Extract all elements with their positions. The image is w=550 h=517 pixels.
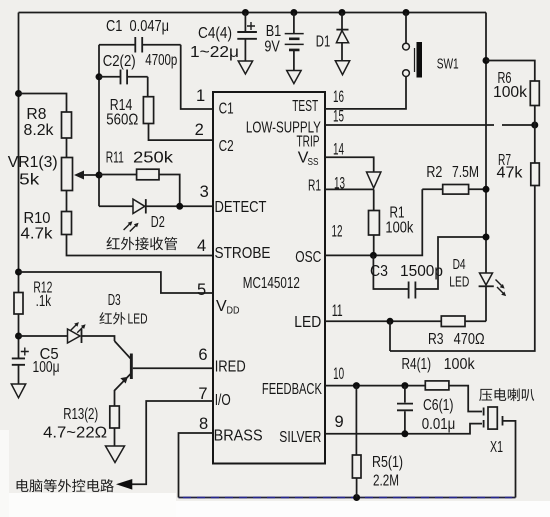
node VR1/R11 left <box>96 172 103 179</box>
wire R8-VR1 <box>66 138 68 158</box>
wire C3 right arm <box>416 237 486 289</box>
svg-text:R3: R3 <box>428 331 444 348</box>
svg-text:IRED: IRED <box>215 359 246 376</box>
svg-text:TRIP: TRIP <box>297 133 320 150</box>
resistor R4 <box>425 381 449 390</box>
wire R6 to tap <box>534 106 536 164</box>
svg-text:C6(1): C6(1) <box>423 397 454 414</box>
svg-text:LED: LED <box>294 314 321 331</box>
svg-text:LED: LED <box>449 274 469 291</box>
wire D3 anode <box>19 335 68 337</box>
svg-text:BRASS: BRASS <box>214 428 263 445</box>
wire pin15 low-supply <box>325 124 535 126</box>
svg-text:4.7~22Ω: 4.7~22Ω <box>43 425 107 442</box>
ground D1 <box>335 61 349 75</box>
resistor R5 <box>352 455 361 478</box>
D3 emit arrows <box>71 324 78 331</box>
wire C3 left arm <box>373 255 408 289</box>
wire C2 to R14 <box>147 77 149 97</box>
svg-text:R13(2): R13(2) <box>63 406 98 423</box>
resistor R13 <box>110 406 120 428</box>
svg-text:11: 11 <box>332 302 343 320</box>
node pin15 divider tap <box>531 122 538 129</box>
label X1 chinese <box>479 389 492 401</box>
node bottom rail / R5 <box>353 494 360 501</box>
wire R8 branch <box>19 94 67 113</box>
node D1 top <box>339 9 346 16</box>
svg-text:R1: R1 <box>308 177 321 194</box>
svg-text:2.2M: 2.2M <box>373 473 399 490</box>
svg-text:V: V <box>216 298 227 315</box>
wire left rail upper <box>18 13 20 293</box>
wire R6 branch <box>486 61 535 82</box>
node R2/right rail <box>483 186 490 193</box>
transistor Q1 emitter <box>115 374 131 406</box>
wire R11 right to detect line <box>159 175 180 207</box>
svg-text:I/O: I/O <box>215 392 231 409</box>
svg-text:250k: 250k <box>133 150 174 167</box>
wire R4 to X1 top <box>449 386 482 412</box>
wire pin11 down to R7 loop <box>389 321 391 351</box>
svg-text:100μ: 100μ <box>33 359 60 376</box>
LED D4 <box>480 273 493 285</box>
wire bottom rail <box>179 497 516 499</box>
node R6 branch <box>483 57 490 64</box>
wire R2 right lead <box>469 188 486 190</box>
piezo X1 left electrodes <box>483 408 485 428</box>
svg-text:SW1: SW1 <box>437 56 459 73</box>
capacitor C4 plus <box>247 22 255 30</box>
resistor R2 <box>443 185 469 195</box>
switch SW1 actuator <box>417 42 423 78</box>
svg-text:9V: 9V <box>264 39 280 56</box>
node D3 branch <box>15 333 22 340</box>
svg-text:0.01μ: 0.01μ <box>422 416 456 433</box>
node B1 top <box>290 9 297 16</box>
wire pin9 SILVER <box>325 424 482 434</box>
wire R13 to ground <box>114 428 116 446</box>
wire R14 to pin2 <box>149 124 214 141</box>
node VDD branch <box>15 269 22 276</box>
capacitor C1 <box>99 44 181 46</box>
node detect junction <box>176 203 183 210</box>
wire R11 left <box>99 174 137 176</box>
svg-text:R11: R11 <box>106 150 124 167</box>
wire D4 to R3 line <box>485 286 487 321</box>
transistor Q1 emitter arrow <box>120 377 128 384</box>
svg-text:6: 6 <box>198 346 207 364</box>
diode D1 <box>336 29 348 31</box>
svg-text:TEST: TEST <box>292 98 318 115</box>
svg-text:C2(2): C2(2) <box>103 53 136 70</box>
wire pin14 Vss <box>325 157 374 172</box>
wire VDD branch to pin5 <box>19 272 214 293</box>
wire left rail lower (R12 to C5) <box>18 314 20 358</box>
photodiode D2 <box>133 199 145 213</box>
wire D3 to collector <box>82 336 115 341</box>
svg-text:R5(1): R5(1) <box>372 454 403 471</box>
wire R1 top lead <box>373 189 375 210</box>
wire R2 left lead <box>422 188 442 190</box>
resistor R11 <box>137 169 159 180</box>
svg-text:DETECT: DETECT <box>215 199 267 216</box>
wire R1 bottom lead <box>373 235 375 255</box>
svg-text:D3: D3 <box>108 292 121 309</box>
switch SW1 contacts <box>403 43 410 50</box>
svg-text:4700p: 4700p <box>145 52 177 69</box>
ground C4 <box>238 61 252 74</box>
external control arrow <box>116 479 132 490</box>
svg-text:47k: 47k <box>497 165 524 182</box>
piezo X1 crystal <box>488 407 497 429</box>
ground Vss arrow <box>367 172 381 188</box>
transistor Q1 collector <box>115 341 131 359</box>
svg-text:100k: 100k <box>493 84 528 101</box>
label D2 chinese <box>106 237 119 249</box>
node C2 left <box>96 73 103 80</box>
potentiometer VR1 <box>62 158 73 191</box>
svg-text:7: 7 <box>198 385 207 403</box>
label D3 chinese <box>99 312 111 324</box>
node SILVER/C6 <box>401 430 408 437</box>
svg-text:DD: DD <box>227 306 240 317</box>
svg-text:.1k: .1k <box>36 293 52 310</box>
capacitor C5 plus <box>21 348 29 356</box>
svg-text:470Ω: 470Ω <box>454 331 485 348</box>
D4 emit arrows <box>496 280 502 286</box>
node FEEDBACK/C6 <box>401 382 408 389</box>
svg-text:X1: X1 <box>490 439 503 456</box>
svg-text:MC145012: MC145012 <box>243 275 300 292</box>
wire base to pin6 <box>133 367 213 369</box>
svg-text:9: 9 <box>335 413 344 431</box>
svg-text:STROBE: STROBE <box>215 245 271 262</box>
battery B1 <box>285 34 304 45</box>
resistor R14 <box>143 97 153 124</box>
wire SW1 top <box>405 13 407 44</box>
capacitor C3 <box>409 282 416 299</box>
VR1 wiper arrow <box>80 174 99 176</box>
node OSC/R1/C3 <box>370 252 377 259</box>
svg-text:C1: C1 <box>219 101 234 118</box>
svg-text:C2: C2 <box>219 138 234 155</box>
wire C1 left rail <box>98 45 100 207</box>
svg-text:D1: D1 <box>316 34 331 51</box>
svg-text:10: 10 <box>333 365 344 383</box>
ground R13 <box>106 446 125 463</box>
svg-text:8.2k: 8.2k <box>24 122 55 139</box>
resistor R10 <box>62 212 72 235</box>
svg-text:LED: LED <box>128 312 148 328</box>
wire SW1 to pin16 <box>325 77 406 109</box>
label external control chinese <box>17 479 29 492</box>
svg-text:1: 1 <box>196 87 205 105</box>
capacitor C6 <box>404 386 406 434</box>
resistor R1 <box>369 211 380 236</box>
wire BRASS to bottom rail <box>179 433 214 498</box>
svg-text:FEEDBACK: FEEDBACK <box>262 381 322 398</box>
wire R7 down to LED loop <box>390 186 535 352</box>
svg-text:1500p: 1500p <box>400 263 443 280</box>
svg-text:14: 14 <box>333 141 344 159</box>
wire pin12 OSC <box>325 189 422 255</box>
svg-text:R2: R2 <box>426 164 442 181</box>
node: left rail / R8 branch <box>15 90 22 97</box>
capacitor C4 <box>237 32 257 39</box>
wire R5 top <box>355 386 357 455</box>
svg-text:R8: R8 <box>26 106 46 123</box>
resistor R6 <box>530 81 539 106</box>
wire I/O to external <box>131 401 213 484</box>
infrared LED D3 <box>68 329 81 343</box>
ground B1 <box>287 71 301 84</box>
svg-text:R4(1): R4(1) <box>402 356 432 373</box>
svg-text:C4(4): C4(4) <box>198 25 232 42</box>
svg-text:5: 5 <box>197 281 206 299</box>
svg-text:8: 8 <box>199 415 208 433</box>
wire C1 to pin1 <box>181 45 213 109</box>
wire D1 bottom <box>341 43 343 61</box>
node C3/right rail <box>483 234 490 241</box>
svg-text:B1: B1 <box>266 23 282 40</box>
white bottom band <box>0 501 550 517</box>
svg-text:16: 16 <box>333 88 344 106</box>
svg-text:2: 2 <box>195 121 204 139</box>
svg-text:4.7k: 4.7k <box>21 226 54 243</box>
node C4 top <box>242 9 249 16</box>
wire right rail <box>485 13 487 273</box>
wire B1 bottom <box>293 50 295 71</box>
svg-text:15: 15 <box>333 108 344 126</box>
wire VR1-R10 <box>66 191 68 212</box>
resistor R12 <box>14 293 23 315</box>
svg-text:D2: D2 <box>151 214 165 231</box>
svg-text:1~22μ: 1~22μ <box>190 44 239 61</box>
wire R10 to pin4 <box>67 235 214 256</box>
IC U1 MC145012 body <box>213 92 325 464</box>
wire C4 bottom <box>244 39 246 61</box>
svg-text:12: 12 <box>332 222 343 240</box>
wire detect line <box>99 205 213 207</box>
resistor R3 <box>441 316 465 327</box>
capacitor C5 <box>12 358 25 364</box>
svg-text:OSC: OSC <box>295 249 321 266</box>
svg-text:3: 3 <box>200 183 209 201</box>
svg-text:7.5M: 7.5M <box>452 164 479 181</box>
svg-text:D4: D4 <box>453 256 466 273</box>
wire B1 top <box>293 13 295 34</box>
svg-text:100k: 100k <box>444 356 476 373</box>
svg-text:4: 4 <box>197 237 206 255</box>
ground C5 <box>11 384 25 398</box>
piezo X1 right electrode <box>502 416 504 426</box>
svg-text:5k: 5k <box>19 172 40 189</box>
wire top supply rail <box>19 12 487 14</box>
wire pin13 R1 <box>325 188 374 190</box>
node SW1 top <box>403 9 410 16</box>
resistor R8 <box>62 112 72 138</box>
node FEEDBACK/R5 <box>353 382 360 389</box>
wire pin10 FEEDBACK <box>325 385 425 387</box>
svg-text:R10: R10 <box>24 210 51 227</box>
node pin11/R7 loop <box>387 318 394 325</box>
svg-text:C3: C3 <box>370 263 388 280</box>
wire R5 bottom <box>356 478 358 498</box>
transistor Q1 base bar <box>130 354 133 380</box>
D2 receive arrows <box>124 223 131 230</box>
svg-text:C1 0.047μ: C1 0.047μ <box>106 18 169 35</box>
capacitor C2 <box>99 76 148 78</box>
svg-text:VR1(3): VR1(3) <box>8 154 58 171</box>
svg-text:560Ω: 560Ω <box>106 112 138 129</box>
svg-text:SS: SS <box>308 157 319 168</box>
svg-text:SILVER: SILVER <box>279 429 321 446</box>
wire C4 top <box>244 13 246 32</box>
svg-text:100k: 100k <box>385 220 414 237</box>
resistor R7 <box>531 163 540 186</box>
wire pin11 LED line <box>325 320 486 322</box>
wire D1 top <box>341 13 343 30</box>
